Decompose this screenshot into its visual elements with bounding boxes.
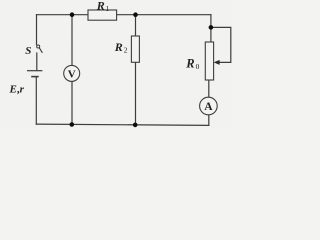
- junction node top R2: [133, 12, 138, 17]
- junction node bottom R2: [133, 123, 138, 128]
- battery long plate: [27, 70, 42, 72]
- svg-text:A: A: [204, 101, 213, 113]
- wire left vertical upper: [36, 15, 38, 45]
- svg-text:1: 1: [106, 4, 110, 13]
- svg-text:E,r: E,r: [9, 83, 25, 95]
- wire R2 branch upper: [135, 15, 137, 36]
- wire top left segment: [37, 14, 89, 16]
- wire V branch lower: [71, 81, 73, 124]
- svg-text:0: 0: [196, 62, 200, 71]
- resistor R2 box: [131, 36, 139, 62]
- rheostat wiper arrowhead: [214, 60, 220, 65]
- wire right vertical below ammeter: [208, 115, 210, 126]
- wire wiper feedback: [211, 27, 231, 62]
- svg-text:S: S: [25, 45, 31, 57]
- junction node top V: [70, 12, 75, 17]
- wire bottom: [36, 124, 208, 125]
- voltmeter V circle: [64, 65, 80, 81]
- switch S pivot circle: [37, 45, 40, 48]
- rheostat R0 box: [205, 42, 213, 80]
- svg-text:R: R: [96, 0, 105, 13]
- wire R0 top to corner: [210, 15, 212, 42]
- wire ammeter to R0: [208, 80, 210, 97]
- junction node bottom V: [70, 122, 75, 127]
- svg-text:V: V: [68, 69, 76, 81]
- svg-text:R: R: [114, 40, 123, 54]
- resistor R1 box: [88, 10, 117, 20]
- wire left vertical lower: [36, 53, 38, 70]
- svg-text:2: 2: [124, 46, 128, 55]
- wire R2 branch lower: [135, 62, 137, 125]
- switch S blade: [39, 48, 42, 53]
- battery short plate: [31, 76, 39, 78]
- wire V branch upper: [71, 15, 73, 66]
- junction node wiper tap: [209, 25, 214, 30]
- wire battery to bottom: [35, 77, 37, 125]
- wire top right segment: [117, 14, 211, 16]
- svg-text:R: R: [185, 57, 194, 71]
- ammeter A circle: [200, 97, 218, 115]
- paper background: [0, 0, 233, 129]
